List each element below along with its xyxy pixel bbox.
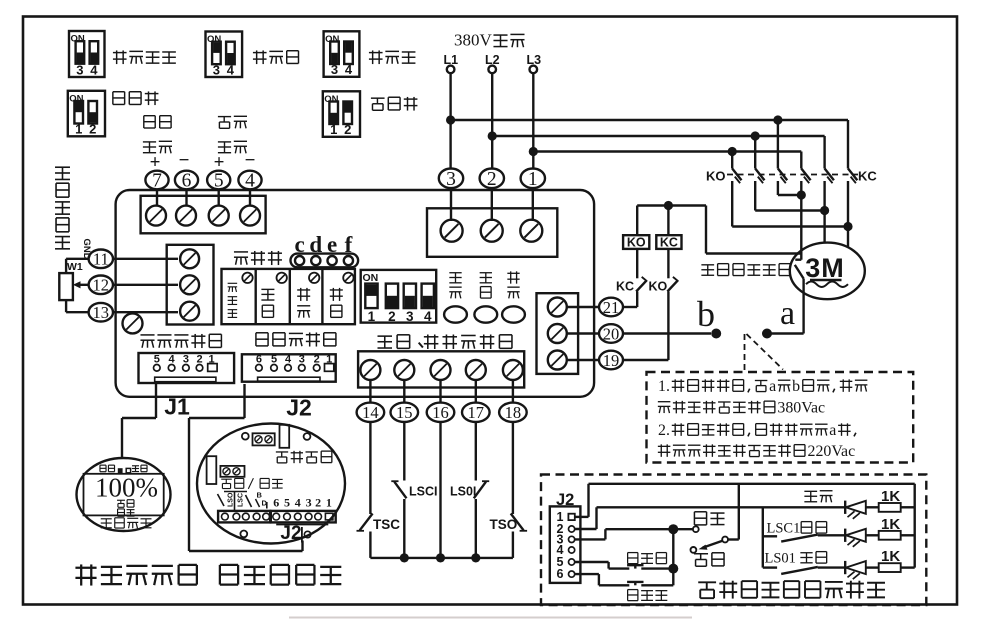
wire button common vertical <box>672 529 674 585</box>
svg-text:19: 19 <box>603 351 620 370</box>
svg-text:16: 16 <box>432 403 449 422</box>
resistor 1K (row2) <box>879 516 901 540</box>
svg-text:ON: ON <box>71 34 85 45</box>
wiper arrow to terminal 12 <box>73 281 89 288</box>
label c d e f <box>294 232 352 257</box>
label GND (rotated) <box>81 239 92 260</box>
wire LSC1 to LED <box>818 534 845 536</box>
wire 14 lower <box>369 532 371 558</box>
interlock contact KO under KC coil <box>667 249 678 292</box>
label 丢信关 <box>253 50 267 64</box>
wire pin1 to top bus <box>575 484 915 517</box>
wire screw to numbered terminal x=440 <box>439 380 441 402</box>
label 远方/现场 <box>221 479 232 488</box>
wire J1 to LCD <box>122 384 156 460</box>
local control board ellipse <box>197 424 345 544</box>
contact KO phase B lower wire + crossover <box>755 181 824 211</box>
wire screw to numbered terminal x=404 <box>403 380 405 402</box>
dip-switch S6 on board (1 up, 2-4 down) <box>361 270 437 324</box>
contact KC phase C upper wire <box>847 120 849 169</box>
motor 3M ellipse <box>790 243 865 300</box>
resistor 1K (row3) <box>879 548 901 572</box>
wire screw to numbered terminal x=476 <box>475 380 477 402</box>
svg-text:b: b <box>697 294 715 334</box>
label a <box>780 295 795 332</box>
test point ring x=332 <box>328 256 337 265</box>
svg-text:380Vac: 380Vac <box>777 399 825 416</box>
wire LS01 to LED <box>818 566 845 568</box>
wire pin3 to local contact <box>575 529 693 539</box>
label 反馈电流 <box>218 117 231 129</box>
wire common bus 14-18 <box>370 557 513 559</box>
LED 缺相 <box>474 306 497 322</box>
test point strip <box>291 254 359 268</box>
screw terminal under 6 <box>176 206 196 226</box>
screw terminal limit x=476 <box>466 360 486 380</box>
label 遥控接收 <box>101 519 112 528</box>
svg-text:LSO: LSO <box>228 492 235 507</box>
switch LSOI blade <box>474 481 489 498</box>
wire screw to numbered terminal x=513 <box>512 380 514 402</box>
node coil bus <box>664 201 673 210</box>
terminal 21 <box>599 298 623 317</box>
wire terminal 12 to board <box>113 284 178 286</box>
selector blade with arrow <box>699 541 723 550</box>
svg-text:LS01: LS01 <box>765 551 796 567</box>
wire L1 feed line <box>451 119 848 121</box>
label 液晶显示屏 <box>75 564 96 585</box>
svg-text:15: 15 <box>396 403 413 422</box>
label TSO <box>490 517 518 532</box>
svg-text:4: 4 <box>227 62 235 77</box>
notes dashed box <box>647 372 914 463</box>
terminal 1 <box>521 169 545 191</box>
svg-text:6: 6 <box>557 567 564 581</box>
contact KO phase C upper wire <box>777 120 779 169</box>
wire terminal 3 to screw <box>450 188 452 221</box>
screw terminal under 4 <box>240 206 260 226</box>
LCD display ellipse <box>77 458 171 531</box>
label b <box>697 294 715 334</box>
node bus 16 <box>436 553 445 562</box>
dip-switch S2 (close on signal loss), 3 up 4 down <box>206 32 243 78</box>
node tap KO phase B <box>751 131 760 140</box>
terminal L1 circle <box>447 66 455 74</box>
LED LS01 row diode <box>845 561 879 579</box>
label KO (contacts) <box>706 169 726 184</box>
spare screw terminal <box>123 313 143 333</box>
wire KC phase B to motor <box>823 181 825 244</box>
wire L2 feed line <box>492 135 824 137</box>
remote/local terminal block <box>220 466 244 477</box>
label 反作用 <box>371 98 385 110</box>
wire KC phase C to motor <box>847 181 849 248</box>
label 现场 (selector) <box>694 512 706 525</box>
controller board outline <box>116 190 594 397</box>
svg-text:4: 4 <box>345 62 353 77</box>
svg-text:1: 1 <box>528 169 538 190</box>
relay (remote/local) <box>207 456 217 484</box>
wire W1 top to terminal 11 <box>66 259 89 273</box>
label polarity + - + - <box>150 150 256 173</box>
terminal block (pot input) box <box>167 245 214 325</box>
terminal 4 <box>238 171 261 192</box>
dip-switch S5 (reverse action), 1 down 2 up <box>323 91 360 137</box>
svg-text:14: 14 <box>362 403 379 422</box>
label 远方 (LCD) <box>117 500 125 507</box>
label 现场控制板 <box>220 565 238 585</box>
label J2 (plug) <box>556 491 574 509</box>
connector J1 (display) <box>139 353 235 383</box>
mounting hole bottom <box>240 531 247 538</box>
svg-text:J2: J2 <box>286 395 312 421</box>
svg-text:a: a <box>829 422 836 439</box>
contact KO phase C blade <box>778 169 787 184</box>
contact KO phase A upper wire <box>731 152 733 169</box>
label L2 <box>485 53 500 67</box>
label KO (interlock contact) <box>649 280 668 294</box>
svg-text:100%: 100% <box>95 473 158 503</box>
pin header left <box>218 511 270 523</box>
decor: faint bottom line <box>289 617 692 619</box>
wire screw to terminal 19 <box>567 359 599 361</box>
terminal 13 <box>89 303 113 322</box>
label LSC1关位 <box>767 521 827 537</box>
motor temperature switch <box>795 260 804 279</box>
svg-text:LS0I: LS0I <box>450 485 476 499</box>
node bus 15 <box>400 553 409 562</box>
wire 15 lower <box>403 499 405 558</box>
wire terminal 20 to node b <box>623 332 711 334</box>
wire L3 feed line <box>533 150 801 152</box>
terminal 16 <box>427 403 455 423</box>
svg-text:−: − <box>245 150 256 171</box>
wire right bus down <box>914 484 916 568</box>
label 控制接线座 <box>256 333 268 346</box>
contactor coil KC <box>656 235 681 249</box>
label 丢信保持 <box>113 50 127 64</box>
label 380V电源 <box>454 31 525 50</box>
terminal 2 <box>480 169 504 191</box>
wire resistor3 to bus <box>901 566 915 568</box>
switch LS01 tick+blade <box>763 567 818 574</box>
wire terminal to screw at x=157 <box>156 189 158 205</box>
svg-text:5: 5 <box>284 496 290 510</box>
svg-text:13: 13 <box>93 303 110 322</box>
label 电源 (row1) <box>804 491 817 501</box>
trimmer screw x=282 <box>277 273 287 283</box>
wire interlock to terminal 19 <box>623 292 669 361</box>
contact KO phase B blade <box>755 169 764 184</box>
wire 18 down <box>512 421 514 514</box>
label J2 (local board) <box>280 523 310 544</box>
svg-text:LSCI: LSCI <box>409 485 437 499</box>
svg-text:21: 21 <box>603 298 620 317</box>
contact 远方 <box>691 547 697 553</box>
wire 17 lower <box>475 499 477 558</box>
svg-text:ON: ON <box>363 272 379 284</box>
terminal block (limit/torque) box <box>358 351 524 387</box>
wire terminal to screw at x=186 <box>185 189 187 205</box>
push button 现场关 <box>627 565 643 568</box>
svg-text:3M: 3M <box>805 253 845 283</box>
contact KC phase C blade <box>848 169 857 184</box>
contact KO phase B upper wire <box>754 136 756 169</box>
terminal 7 <box>145 171 168 192</box>
switch TSO blade <box>511 514 527 531</box>
label 6 5 4 3 2 1 <box>273 496 332 510</box>
wire interlock to terminal 21 <box>623 292 637 308</box>
svg-text:KO: KO <box>627 236 646 250</box>
svg-text:12: 12 <box>93 276 110 295</box>
wire coil top bus <box>637 206 801 254</box>
svg-text:b: b <box>792 378 800 395</box>
wire screw to terminal 20 <box>567 332 599 334</box>
svg-text:KC: KC <box>616 280 634 294</box>
terminal 20 <box>599 324 623 343</box>
wire L1 down <box>449 73 451 169</box>
test point ring x=300 <box>295 256 304 265</box>
connector J2 (control) <box>242 354 336 382</box>
svg-text:18: 18 <box>505 403 522 422</box>
potentiometer W1 body <box>59 273 73 300</box>
wire terminal 1 to screw <box>532 188 534 221</box>
svg-text:1K: 1K <box>881 516 900 533</box>
mounting hole top-left <box>242 433 249 440</box>
svg-text:GND: GND <box>81 239 92 260</box>
label 远方 (selector) <box>694 554 708 566</box>
LED 电源 <box>444 306 467 322</box>
label KC (contacts) <box>858 169 877 184</box>
wire 18 lower <box>512 532 514 558</box>
terminal 3 <box>439 169 463 191</box>
svg-text:4: 4 <box>424 309 432 324</box>
wire J2 to local board <box>189 384 303 551</box>
svg-text:KC: KC <box>858 169 877 184</box>
node crossover A <box>843 222 852 231</box>
screw terminal power x=531 <box>520 220 542 242</box>
terminal 12 <box>89 276 113 295</box>
svg-text:6: 6 <box>182 171 192 192</box>
wire pin2 to power row <box>575 507 846 529</box>
trimmer screw x=314 <box>309 273 319 283</box>
contact 现场 <box>693 526 699 532</box>
svg-text:KO: KO <box>649 280 668 294</box>
label 电源 (LED) <box>449 273 461 283</box>
contact KO phase A blade <box>732 169 741 184</box>
contact KC phase A blade <box>801 169 810 184</box>
resistor 1K (row1) <box>879 488 901 512</box>
contact KC phase A upper wire <box>800 152 802 169</box>
node tap KO phase C <box>773 115 782 124</box>
terminal L2 circle <box>488 66 496 74</box>
terminal 19 <box>599 351 623 370</box>
label J1 <box>164 394 190 420</box>
label W1 <box>67 261 83 273</box>
wire KC phase A to motor temp switch <box>800 181 802 260</box>
label 正作用 <box>113 92 125 105</box>
svg-text:220Vac: 220Vac <box>808 443 856 460</box>
svg-text:1: 1 <box>75 122 82 137</box>
label LSCI <box>409 485 437 499</box>
screw terminal limit x=370 <box>360 360 380 380</box>
svg-text:4: 4 <box>245 171 255 192</box>
label 现场 (LCD) <box>118 509 125 516</box>
screw terminal for 20 <box>548 324 567 343</box>
trimmer screw x=248 <box>242 273 252 283</box>
svg-text:1K: 1K <box>881 548 900 565</box>
terminal 18 <box>499 403 527 423</box>
terminal 11 <box>89 249 113 268</box>
wire pin6 to button 现场开 <box>575 574 630 585</box>
label 高端 (vertical) <box>261 289 274 300</box>
test point ring x=348 <box>344 256 353 265</box>
pin header right J2 <box>271 511 336 523</box>
screw terminal pot 311 <box>180 302 199 321</box>
underline under J2 pins <box>276 524 328 526</box>
note pointer dashed lines <box>745 334 784 372</box>
LED LSC1 row diode <box>845 529 879 547</box>
LED 电源 row diode <box>845 501 879 519</box>
labels 1-6 <box>557 510 564 581</box>
push button 现场开 <box>627 582 643 585</box>
terminal 14 <box>357 403 385 423</box>
node tap KO phase A <box>728 147 737 156</box>
pins 2-6 <box>569 526 575 577</box>
trimmer box <box>222 269 355 324</box>
relay (alarm) <box>280 425 290 448</box>
node button common mid <box>668 564 678 574</box>
svg-text:LSC1: LSC1 <box>767 521 801 537</box>
label LS01开位 <box>765 551 827 567</box>
svg-text:1K: 1K <box>881 488 900 505</box>
terminal block (contactor out) box <box>537 293 579 374</box>
node L1 feed <box>446 115 455 124</box>
svg-text:2.: 2. <box>658 422 670 439</box>
screw terminal under 7 <box>146 206 166 226</box>
svg-text:a: a <box>780 295 795 332</box>
node bus 17 <box>471 553 480 562</box>
wire screw to numbered terminal x=370 <box>369 380 371 402</box>
wire pin5 to button 现场关 <box>575 562 630 569</box>
label L1 <box>444 53 459 67</box>
contactor coil KO <box>623 235 649 249</box>
label 现场关 <box>628 553 638 564</box>
terminal 15 <box>391 403 419 423</box>
svg-text:W1: W1 <box>67 261 83 273</box>
svg-text:7: 7 <box>152 171 162 192</box>
svg-text:KC: KC <box>660 236 678 250</box>
switch TSC blade <box>357 514 373 531</box>
switch LSC1 tick+blade <box>764 535 818 542</box>
label 电机温度开关 <box>701 265 714 275</box>
screw terminal power x=492 <box>481 220 503 242</box>
wire pivot to riser <box>728 484 739 540</box>
wire resistor2 to bus <box>901 534 915 536</box>
wire screw to terminal 21 <box>567 306 599 308</box>
screw terminal under 5 <box>209 206 229 226</box>
svg-text:1: 1 <box>330 122 337 137</box>
svg-text:1: 1 <box>326 496 332 510</box>
note line 4 <box>658 444 671 457</box>
screw terminal limit x=404 <box>394 360 414 380</box>
mechanical linkage dashed <box>727 174 858 176</box>
svg-text:2: 2 <box>89 122 96 137</box>
screw terminal for 21 <box>548 298 567 317</box>
wire resistor1 to bus <box>901 506 915 508</box>
dip-switch S4 (direct action), 1 up 2 down <box>68 91 105 137</box>
wire 16 down <box>439 421 441 558</box>
label 丢信开 <box>369 50 383 64</box>
connector J2 plug box <box>550 506 581 583</box>
alarm terminal block <box>253 433 275 445</box>
svg-text:a: a <box>769 378 776 395</box>
wire L2 down <box>491 73 493 169</box>
svg-text:KO: KO <box>706 169 726 184</box>
note line 3 <box>658 422 856 439</box>
note line 1 <box>658 378 867 395</box>
svg-text:5: 5 <box>214 171 224 192</box>
node L2 feed <box>488 131 497 140</box>
label TSC <box>373 517 400 532</box>
node a <box>762 329 772 339</box>
svg-text:ON: ON <box>324 94 338 105</box>
wire terminal 2 to screw <box>491 188 493 221</box>
wire 14 down <box>369 421 371 514</box>
svg-text:3: 3 <box>446 169 456 190</box>
label 缺相 (LED) <box>480 273 492 283</box>
svg-text:380V: 380V <box>454 31 493 50</box>
wire button 现场关 to common <box>641 567 673 569</box>
screw terminal for 19 <box>548 351 567 370</box>
svg-text:11: 11 <box>93 250 109 269</box>
dip-switch S1 (hold on signal loss), 3-4 both down <box>69 31 105 77</box>
LED 丢信 <box>502 306 525 322</box>
switch marks SO/SC row <box>218 491 268 511</box>
screw terminal pot 259 <box>180 249 199 268</box>
svg-text:1.: 1. <box>658 378 670 395</box>
svg-text:3: 3 <box>306 496 312 510</box>
terminal block (power) box <box>427 208 557 256</box>
label 综合报警 <box>276 452 288 463</box>
label 显示接线座 <box>140 335 154 348</box>
svg-text:20: 20 <box>603 324 620 343</box>
label L3 <box>527 53 542 67</box>
svg-text:2: 2 <box>344 122 351 137</box>
svg-text:4: 4 <box>295 496 301 510</box>
svg-text:2: 2 <box>487 169 497 190</box>
svg-text:ON: ON <box>325 34 339 45</box>
node L3 feed <box>529 147 538 156</box>
switch LSCI blade <box>391 481 406 498</box>
selector pivot contact <box>722 537 728 543</box>
wire terminal to screw at x=219 <box>217 189 219 205</box>
node b <box>711 329 721 339</box>
wire KC coil top <box>667 206 669 236</box>
label 校准 (vertical) <box>297 288 310 301</box>
label 阀位电位器 (vertical) <box>55 167 70 179</box>
svg-text:3: 3 <box>76 62 83 77</box>
svg-text:J2: J2 <box>280 523 301 544</box>
contact KC phase B blade <box>825 169 834 184</box>
svg-text:6: 6 <box>273 496 279 510</box>
wire terminal 11 to board <box>113 258 178 260</box>
wire terminal 13 to board <box>113 311 178 313</box>
svg-text:3: 3 <box>406 309 414 324</box>
wire terminal to screw at x=250 <box>249 189 251 205</box>
wire W1 bottom to terminal 13 <box>66 300 89 312</box>
wire 15 down <box>403 421 405 480</box>
